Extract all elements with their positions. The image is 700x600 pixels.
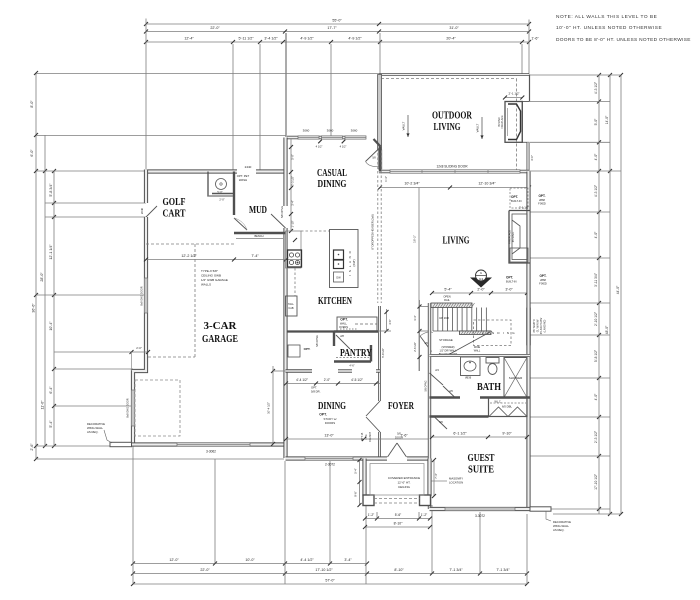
svg-text:13’-0”: 13’-0” <box>324 434 334 438</box>
bottom dimension row 1 <box>131 558 369 566</box>
living fireplace <box>509 211 531 264</box>
svg-text:45 SPEC: 45 SPEC <box>512 232 515 242</box>
mud east opening door <box>271 206 286 228</box>
svg-text:1’-6”: 1’-6” <box>531 37 539 41</box>
svg-text:2640: 2640 <box>140 207 144 214</box>
living opt built-in lower <box>506 206 547 286</box>
dining foyer wall <box>378 306 381 459</box>
decorative wing wall right <box>530 507 571 532</box>
left dimension column x45 <box>40 135 47 448</box>
svg-text:5’-0”: 5’-0” <box>594 119 598 126</box>
svg-text:3’-0”: 3’-0” <box>505 288 513 292</box>
svg-text:OPT.: OPT. <box>538 194 545 198</box>
svg-text:GUEST: GUEST <box>468 453 495 464</box>
kitchen dining wall <box>286 369 381 372</box>
svg-text:BUILT-IN: BUILT-IN <box>506 280 517 284</box>
svg-text:5/0: 5/0 <box>397 432 401 436</box>
svg-text:OPT.: OPT. <box>539 274 546 278</box>
stairs open rail lower <box>460 331 493 335</box>
svg-text:FIREPLACE: FIREPLACE <box>501 115 504 129</box>
svg-text:8x8 OHG DOOR: 8x8 OHG DOOR <box>126 398 130 417</box>
svg-text:22’-0”: 22’-0” <box>200 568 210 572</box>
svg-text:9’-6”: 9’-6” <box>354 491 358 496</box>
svg-text:28’-0”: 28’-0” <box>40 272 44 282</box>
svg-text:DOORS TO BE 8'-0" HT. UNLESS N: DOORS TO BE 8'-0" HT. UNLESS NOTED OTHER… <box>556 37 691 43</box>
svg-text:VB36: VB36 <box>465 376 472 380</box>
covered entrance dimension rows <box>363 512 432 529</box>
svg-text:CAB: CAB <box>288 307 293 310</box>
svg-text:OPT.: OPT. <box>340 318 348 322</box>
golf cart west door 2640 <box>140 206 157 217</box>
garage dashed bay <box>135 380 180 436</box>
landing window note <box>533 317 547 334</box>
covered entrance walls <box>363 459 431 506</box>
svg-text:OPT.: OPT. <box>506 276 513 280</box>
svg-text:1’-10”: 1’-10” <box>291 220 295 227</box>
svg-text:12’-1 1/4”: 12’-1 1/4” <box>49 244 53 260</box>
svg-text:10’-2 3/4”: 10’-2 3/4” <box>404 182 420 186</box>
covered entrance label <box>388 476 420 489</box>
svg-text:6/0 DBL: 6/0 DBL <box>502 405 513 409</box>
kitchen island <box>330 230 359 288</box>
svg-text:3’-4”: 3’-4” <box>344 558 352 562</box>
dimension row top-3 segments <box>144 37 539 45</box>
outdoor living top wall <box>379 73 529 75</box>
svg-text:7’-4”: 7’-4” <box>251 254 259 258</box>
garage south wall with doors <box>132 443 286 454</box>
svg-text:3’-4 1/2”: 3’-4 1/2” <box>264 37 278 41</box>
svg-text:2/4: 2/4 <box>435 368 439 372</box>
svg-text:4’-6”: 4’-6” <box>388 319 392 324</box>
svg-text:12x8 SLIDING DOOR: 12x8 SLIDING DOOR <box>437 165 469 169</box>
svg-text:VAULT: VAULT <box>402 121 406 130</box>
svg-text:5’-11 1/2”: 5’-11 1/2” <box>239 37 255 41</box>
svg-text:LIVING: LIVING <box>434 122 461 133</box>
svg-text:COVERED ENTRANCE: COVERED ENTRANCE <box>388 476 420 480</box>
outdoor fireplace dimension <box>503 92 524 100</box>
svg-text:TALL: TALL <box>288 303 294 306</box>
svg-text:LITE: LITE <box>365 434 368 440</box>
mud west wall <box>233 172 235 216</box>
svg-text:DOORS: DOORS <box>325 421 335 425</box>
kitchen dining dimension row <box>284 335 380 393</box>
svg-text:1’-2”: 1’-2” <box>421 513 427 517</box>
svg-text:2’-0”: 2’-0” <box>219 198 224 202</box>
svg-text:DW: DW <box>336 277 341 280</box>
svg-text:MUD: MUD <box>249 205 267 216</box>
svg-text:FIXED: FIXED <box>538 202 546 206</box>
bath north wall <box>430 354 531 357</box>
guest suite south wall with window <box>430 507 531 518</box>
svg-text:12’-4”: 12’-4” <box>184 37 194 41</box>
svg-text:5/8 OPNG: 5/8 OPNG <box>280 206 284 218</box>
casual dining west rotated dims <box>289 139 295 233</box>
svg-text:2’-3 1/2”: 2’-3 1/2” <box>291 176 295 186</box>
svg-text:KITCHEN: KITCHEN <box>318 296 353 307</box>
svg-text:WASH: WASH <box>239 178 247 182</box>
garage jog dimension 2-0 <box>54 346 150 371</box>
svg-text:DOOR: DOOR <box>395 436 403 440</box>
svg-text:4’-6”: 4’-6” <box>349 364 354 368</box>
guest suite room label <box>468 453 495 476</box>
bath south wall <box>430 396 531 398</box>
entrance side dims <box>354 458 439 507</box>
right dimension column x621 <box>616 73 623 516</box>
svg-text:2’-6 1/2”: 2’-6 1/2” <box>413 342 417 352</box>
svg-text:4’-9 1/2”: 4’-9 1/2” <box>300 37 314 41</box>
right dimension column x610 <box>605 73 612 516</box>
svg-text:TYPE-X 5/8”: TYPE-X 5/8” <box>201 269 218 273</box>
guest suite dimension row <box>430 432 529 440</box>
svg-text:2440: 2440 <box>245 165 252 169</box>
svg-text:4’-3 1/2”: 4’-3 1/2” <box>594 82 598 94</box>
right dimension column x599 <box>594 73 601 514</box>
outdoor living screen wall west <box>378 75 382 170</box>
svg-text:GOLF: GOLF <box>163 197 186 208</box>
pantry walls <box>334 332 378 362</box>
svg-text:2’-10 1/2”: 2’-10 1/2” <box>594 312 598 326</box>
covered entrance inner outline <box>370 464 424 496</box>
svg-text:2-3072: 2-3072 <box>325 463 335 467</box>
svg-text:FIXED: FIXED <box>539 282 547 286</box>
svg-text:AS REQ.: AS REQ. <box>553 528 565 532</box>
svg-text:55’-0”: 55’-0” <box>332 19 342 23</box>
pet wash niche <box>208 172 250 197</box>
svg-text:4’-0”: 4’-0” <box>530 155 534 161</box>
svg-text:10'-0" HT. UNLESS NOTED OTHERW: 10'-0" HT. UNLESS NOTED OTHERWISE <box>556 25 662 31</box>
svg-text:CEILING: CEILING <box>398 485 411 489</box>
svg-text:57’-0”: 57’-0” <box>325 579 335 583</box>
wine wall label <box>474 346 481 353</box>
svg-text:9’-10”: 9’-10” <box>502 432 512 436</box>
svg-text:3’-11 3/4”: 3’-11 3/4” <box>594 273 598 287</box>
svg-text:3060: 3060 <box>327 129 334 133</box>
svg-text:48’-0”: 48’-0” <box>605 326 609 334</box>
svg-text:5/8 DR.: 5/8 DR. <box>311 390 321 394</box>
svg-text:5/8 OPNG: 5/8 OPNG <box>316 335 319 347</box>
svg-text:2/8: 2/8 <box>340 334 344 338</box>
svg-text:OVENS: OVENS <box>339 325 348 329</box>
garage east wall <box>283 138 287 207</box>
svg-text:OPEN: OPEN <box>443 295 450 299</box>
dining south wall with window <box>286 457 365 467</box>
front door <box>388 432 407 458</box>
svg-text:8’-0”: 8’-0” <box>30 100 34 108</box>
svg-text:2’-0”: 2’-0” <box>324 378 330 382</box>
svg-text:5/8 OPNG: 5/8 OPNG <box>425 380 428 391</box>
outdoor fireplace <box>498 102 522 143</box>
left extension lines <box>36 74 379 460</box>
svg-text:WALL: WALL <box>474 350 481 353</box>
outdoor living room label <box>432 111 473 134</box>
kitchen tall cab <box>286 296 298 316</box>
svg-text:PANTRY: PANTRY <box>340 348 373 359</box>
kitchen counter dashed <box>295 231 330 296</box>
kitchen range <box>288 250 302 267</box>
mud door swing <box>234 218 247 230</box>
svg-text:OPT.: OPT. <box>511 195 518 199</box>
svg-text:8x8 OHG DOOR: 8x8 OHG DOOR <box>140 286 144 305</box>
garage west wall upper <box>144 170 148 204</box>
kitchen opt wall ovens <box>337 317 377 332</box>
living opt built-in upper <box>510 188 546 208</box>
vault arrow left <box>402 115 410 137</box>
living west dim line <box>413 188 420 372</box>
svg-text:1’-4”: 1’-4” <box>384 176 388 182</box>
svg-text:4’-9 1/2”: 4’-9 1/2” <box>348 37 362 41</box>
svg-text:(4’x8’): (4’x8’) <box>352 259 356 266</box>
svg-text:3-3072: 3-3072 <box>475 514 485 518</box>
svg-text:SHOWER: SHOWER <box>509 376 523 380</box>
svg-text:BENCH: BENCH <box>254 234 263 238</box>
landing dashed <box>474 320 516 346</box>
svg-text:11’-0”: 11’-0” <box>41 400 45 410</box>
svg-text:7’-1 3/4”: 7’-1 3/4” <box>449 568 463 572</box>
pantry door <box>336 334 350 349</box>
svg-text:AS REQ.: AS REQ. <box>87 430 99 434</box>
svg-text:5’-8 3/4”: 5’-8 3/4” <box>49 183 53 197</box>
svg-text:L A N D I N G: L A N D I N G <box>482 331 516 335</box>
svg-text:4’-4 1/2”: 4’-4 1/2” <box>300 558 314 562</box>
svg-text:NOTE: ALL WALLS THIS LEVEL TO: NOTE: ALL WALLS THIS LEVEL TO BE <box>556 14 657 20</box>
svg-text:WALL: WALL <box>340 322 348 326</box>
svg-text:RAIL: RAIL <box>444 298 450 302</box>
svg-text:SUITE: SUITE <box>468 465 494 476</box>
guest door <box>434 417 447 430</box>
dining dimension row <box>284 434 430 442</box>
dimension row top-2 22-0 / 17-7 / 31-0 <box>144 26 531 34</box>
svg-text:2/6: 2/6 <box>449 389 453 393</box>
masonry location note <box>431 477 463 485</box>
svg-text:12’-2 1/2”: 12’-2 1/2” <box>181 254 197 258</box>
svg-text:OPT.: OPT. <box>319 413 327 417</box>
svg-text:5’-4”: 5’-4” <box>444 288 452 292</box>
svg-text:STORAGE: STORAGE <box>439 338 453 342</box>
svg-text:WALLS: WALLS <box>201 283 211 287</box>
svg-text:7’-1 3/4”: 7’-1 3/4” <box>496 568 510 572</box>
svg-text:4 1/2”: 4 1/2” <box>340 145 347 149</box>
svg-text:3’-4”: 3’-4” <box>413 315 417 320</box>
svg-text:2’-0”: 2’-0” <box>477 288 485 292</box>
svg-text:5’-8 1/2”: 5’-8 1/2” <box>381 348 385 358</box>
svg-text:LOCATION: LOCATION <box>449 481 463 485</box>
svg-text:4’-4 1/2”: 4’-4 1/2” <box>296 378 308 382</box>
svg-text:4.1: 4.1 <box>479 277 483 281</box>
bath vanity <box>461 357 481 380</box>
svg-text:2’-6”: 2’-6” <box>30 443 34 451</box>
sliding door wall <box>379 165 529 174</box>
svg-text:LIVING: LIVING <box>443 236 470 247</box>
svg-text:4’-0”: 4’-0” <box>594 394 598 401</box>
svg-text:17’-10 1/2”: 17’-10 1/2” <box>594 474 598 490</box>
kitchen south counter wall <box>287 330 334 332</box>
svg-text:5’-4”: 5’-4” <box>49 420 53 428</box>
living east wall <box>526 172 530 510</box>
svg-text:OUTDOOR: OUTDOOR <box>432 111 473 122</box>
svg-text:2868: 2868 <box>540 278 546 282</box>
stairs dimension row <box>430 288 529 296</box>
decorative wing wall left <box>87 422 132 447</box>
casual dining corner door <box>366 139 381 172</box>
svg-text:FRENCH: FRENCH <box>369 432 372 443</box>
svg-text:5’-8 1/2”: 5’-8 1/2” <box>594 350 598 362</box>
svg-text:2’-1 1/2”: 2’-1 1/2” <box>519 206 529 210</box>
svg-text:I S L A N D: I S L A N D <box>348 250 352 276</box>
note text top right <box>556 14 691 43</box>
svg-text:W.I.C.: W.I.C. <box>494 400 501 404</box>
top dimension extension lines <box>146 19 529 172</box>
golf cart room label <box>163 197 186 220</box>
svg-text:(LANDING): (LANDING) <box>544 319 547 332</box>
golf cart mud north wall <box>146 165 287 172</box>
svg-text:8’-10”: 8’-10” <box>394 568 404 572</box>
svg-text:3-3062: 3-3062 <box>206 450 216 454</box>
right extension lines <box>530 75 621 514</box>
svg-text:3060: 3060 <box>303 129 310 133</box>
svg-text:10’-0”: 10’-0” <box>245 558 255 562</box>
svg-text:10’-4”: 10’-4” <box>49 321 53 331</box>
dropped header dashed line <box>371 153 382 303</box>
svg-text:17’-10 1/2”: 17’-10 1/2” <box>315 568 333 572</box>
mud south wall bench <box>234 233 286 239</box>
svg-text:17’-7”: 17’-7” <box>327 26 337 30</box>
kitchen opt microwave box <box>288 345 310 357</box>
stairs open rail upper <box>431 295 475 308</box>
outdoor living east wall <box>522 75 529 172</box>
garage west wall lower <box>131 217 147 445</box>
svg-text:22’-0”: 22’-0” <box>210 26 220 30</box>
foyer french doors to dining <box>361 401 380 442</box>
svg-text:UP 16R: UP 16R <box>439 316 449 320</box>
svg-text:14’-0”: 14’-0” <box>605 116 609 124</box>
foyer south wall <box>365 456 431 460</box>
guest suite west wall <box>428 459 431 510</box>
svg-text:31’-0”: 31’-0” <box>449 26 459 30</box>
svg-text:DINING: DINING <box>318 401 346 412</box>
section marker symbol <box>470 270 492 288</box>
left dimension column x36 <box>30 71 38 461</box>
under stair slope <box>439 332 490 356</box>
living north dimension row <box>378 176 531 189</box>
svg-text:2’-3 1/2”: 2’-3 1/2” <box>594 431 598 443</box>
svg-text:10’-4 1/2”: 10’-4 1/2” <box>267 402 271 414</box>
svg-text:8” DROPPED HEADER (2x6): 8” DROPPED HEADER (2x6) <box>371 214 375 249</box>
garage interior dashed ceiling line <box>148 244 195 357</box>
mud shelf <box>212 194 233 202</box>
svg-text:2’-1 1/2”: 2’-1 1/2” <box>508 92 519 96</box>
garage wall note text <box>201 269 228 287</box>
svg-text:BUILT-IN: BUILT-IN <box>511 199 522 203</box>
svg-text:FOYER: FOYER <box>388 401 415 412</box>
bath shower <box>504 358 527 398</box>
svg-text:CEILING GWB: CEILING GWB <box>201 274 221 278</box>
svg-text:6’-0”: 6’-0” <box>30 149 34 157</box>
svg-text:45 SPEC: 45 SPEC <box>498 117 501 127</box>
svg-text:VAULT: VAULT <box>476 123 480 132</box>
svg-text:5’-4”: 5’-4” <box>354 468 358 473</box>
svg-text:5’-0”: 5’-0” <box>291 154 295 159</box>
svg-text:4’-5 1/2”: 4’-5 1/2” <box>351 378 363 382</box>
svg-text:4’-0”: 4’-0” <box>594 232 598 239</box>
left dimension column x54 <box>49 169 56 448</box>
svg-text:1’-2”: 1’-2” <box>368 513 374 517</box>
bottom dimension row 2 <box>131 568 529 576</box>
svg-text:20’-4”: 20’-4” <box>446 37 456 41</box>
bath doors <box>430 368 456 398</box>
svg-text:2868: 2868 <box>539 198 545 202</box>
svg-text:4 1/2”: 4 1/2” <box>316 145 323 149</box>
svg-text:44’-0”: 44’-0” <box>616 286 620 294</box>
garage room label <box>202 321 238 345</box>
svg-text:12’-10 3/4”: 12’-10 3/4” <box>478 182 496 186</box>
svg-text:DINING: DINING <box>318 179 347 190</box>
bottom extension lines <box>133 446 527 584</box>
dining room label <box>318 401 346 425</box>
svg-text:8’-10”: 8’-10” <box>394 522 403 526</box>
outdoor living ceiling dashed line <box>381 79 517 171</box>
svg-text:7’-4”: 7’-4” <box>434 473 438 478</box>
svg-text:16’-2”: 16’-2” <box>413 235 417 243</box>
svg-text:OPT.: OPT. <box>304 347 311 351</box>
stairs west wall <box>428 303 431 459</box>
bottom dimension row 3 57-0 <box>131 579 529 587</box>
pantry shelf dashes <box>336 357 369 359</box>
casual dining north wall with windows <box>287 129 366 149</box>
svg-text:4’-3 1/2”: 4’-3 1/2” <box>594 185 598 197</box>
svg-text:BATH: BATH <box>477 382 501 393</box>
golf cart south dashed line <box>146 243 234 245</box>
mud dimension row <box>144 254 301 262</box>
svg-text:5’-6”: 5’-6” <box>395 513 401 517</box>
guest closet <box>489 398 528 417</box>
svg-text:2’-0”: 2’-0” <box>136 346 142 350</box>
svg-text:12’-0”: 12’-0” <box>169 558 179 562</box>
svg-text:3/0: 3/0 <box>439 420 443 424</box>
dimension row top-1 55-0 <box>144 19 531 27</box>
stair treads <box>433 308 491 332</box>
svg-text:3-CAR: 3-CAR <box>204 321 238 332</box>
svg-text:6’-4”: 6’-4” <box>49 386 53 394</box>
svg-text:6’-1 1/2”: 6’-1 1/2” <box>453 432 467 436</box>
svg-text:3060: 3060 <box>351 129 358 133</box>
svg-text:12’-0” HT.: 12’-0” HT. <box>397 481 410 485</box>
svg-text:OPT 15: OPT 15 <box>361 432 364 441</box>
svg-text:36’-6”: 36’-6” <box>32 303 36 313</box>
svg-text:CASUAL: CASUAL <box>317 168 347 179</box>
hall to guest wall <box>430 415 489 417</box>
foyer north dim lines <box>378 300 430 371</box>
garage east dim line <box>267 366 287 446</box>
svg-text:4’-0”: 4’-0” <box>594 154 598 161</box>
landing east window band <box>527 308 531 345</box>
garage ohg door labels <box>126 286 144 417</box>
kitchen counter north <box>286 231 302 268</box>
svg-text:GARAGE: GARAGE <box>202 334 238 345</box>
vault arrow right <box>476 117 484 139</box>
bath toilet <box>486 358 499 375</box>
foyer angled door <box>420 332 433 352</box>
casual dining room label <box>317 168 347 190</box>
svg-text:CART: CART <box>163 209 186 220</box>
svg-text:3’-4”: 3’-4” <box>291 200 295 205</box>
svg-text:1/2” GWB GARAGE: 1/2” GWB GARAGE <box>201 278 228 282</box>
